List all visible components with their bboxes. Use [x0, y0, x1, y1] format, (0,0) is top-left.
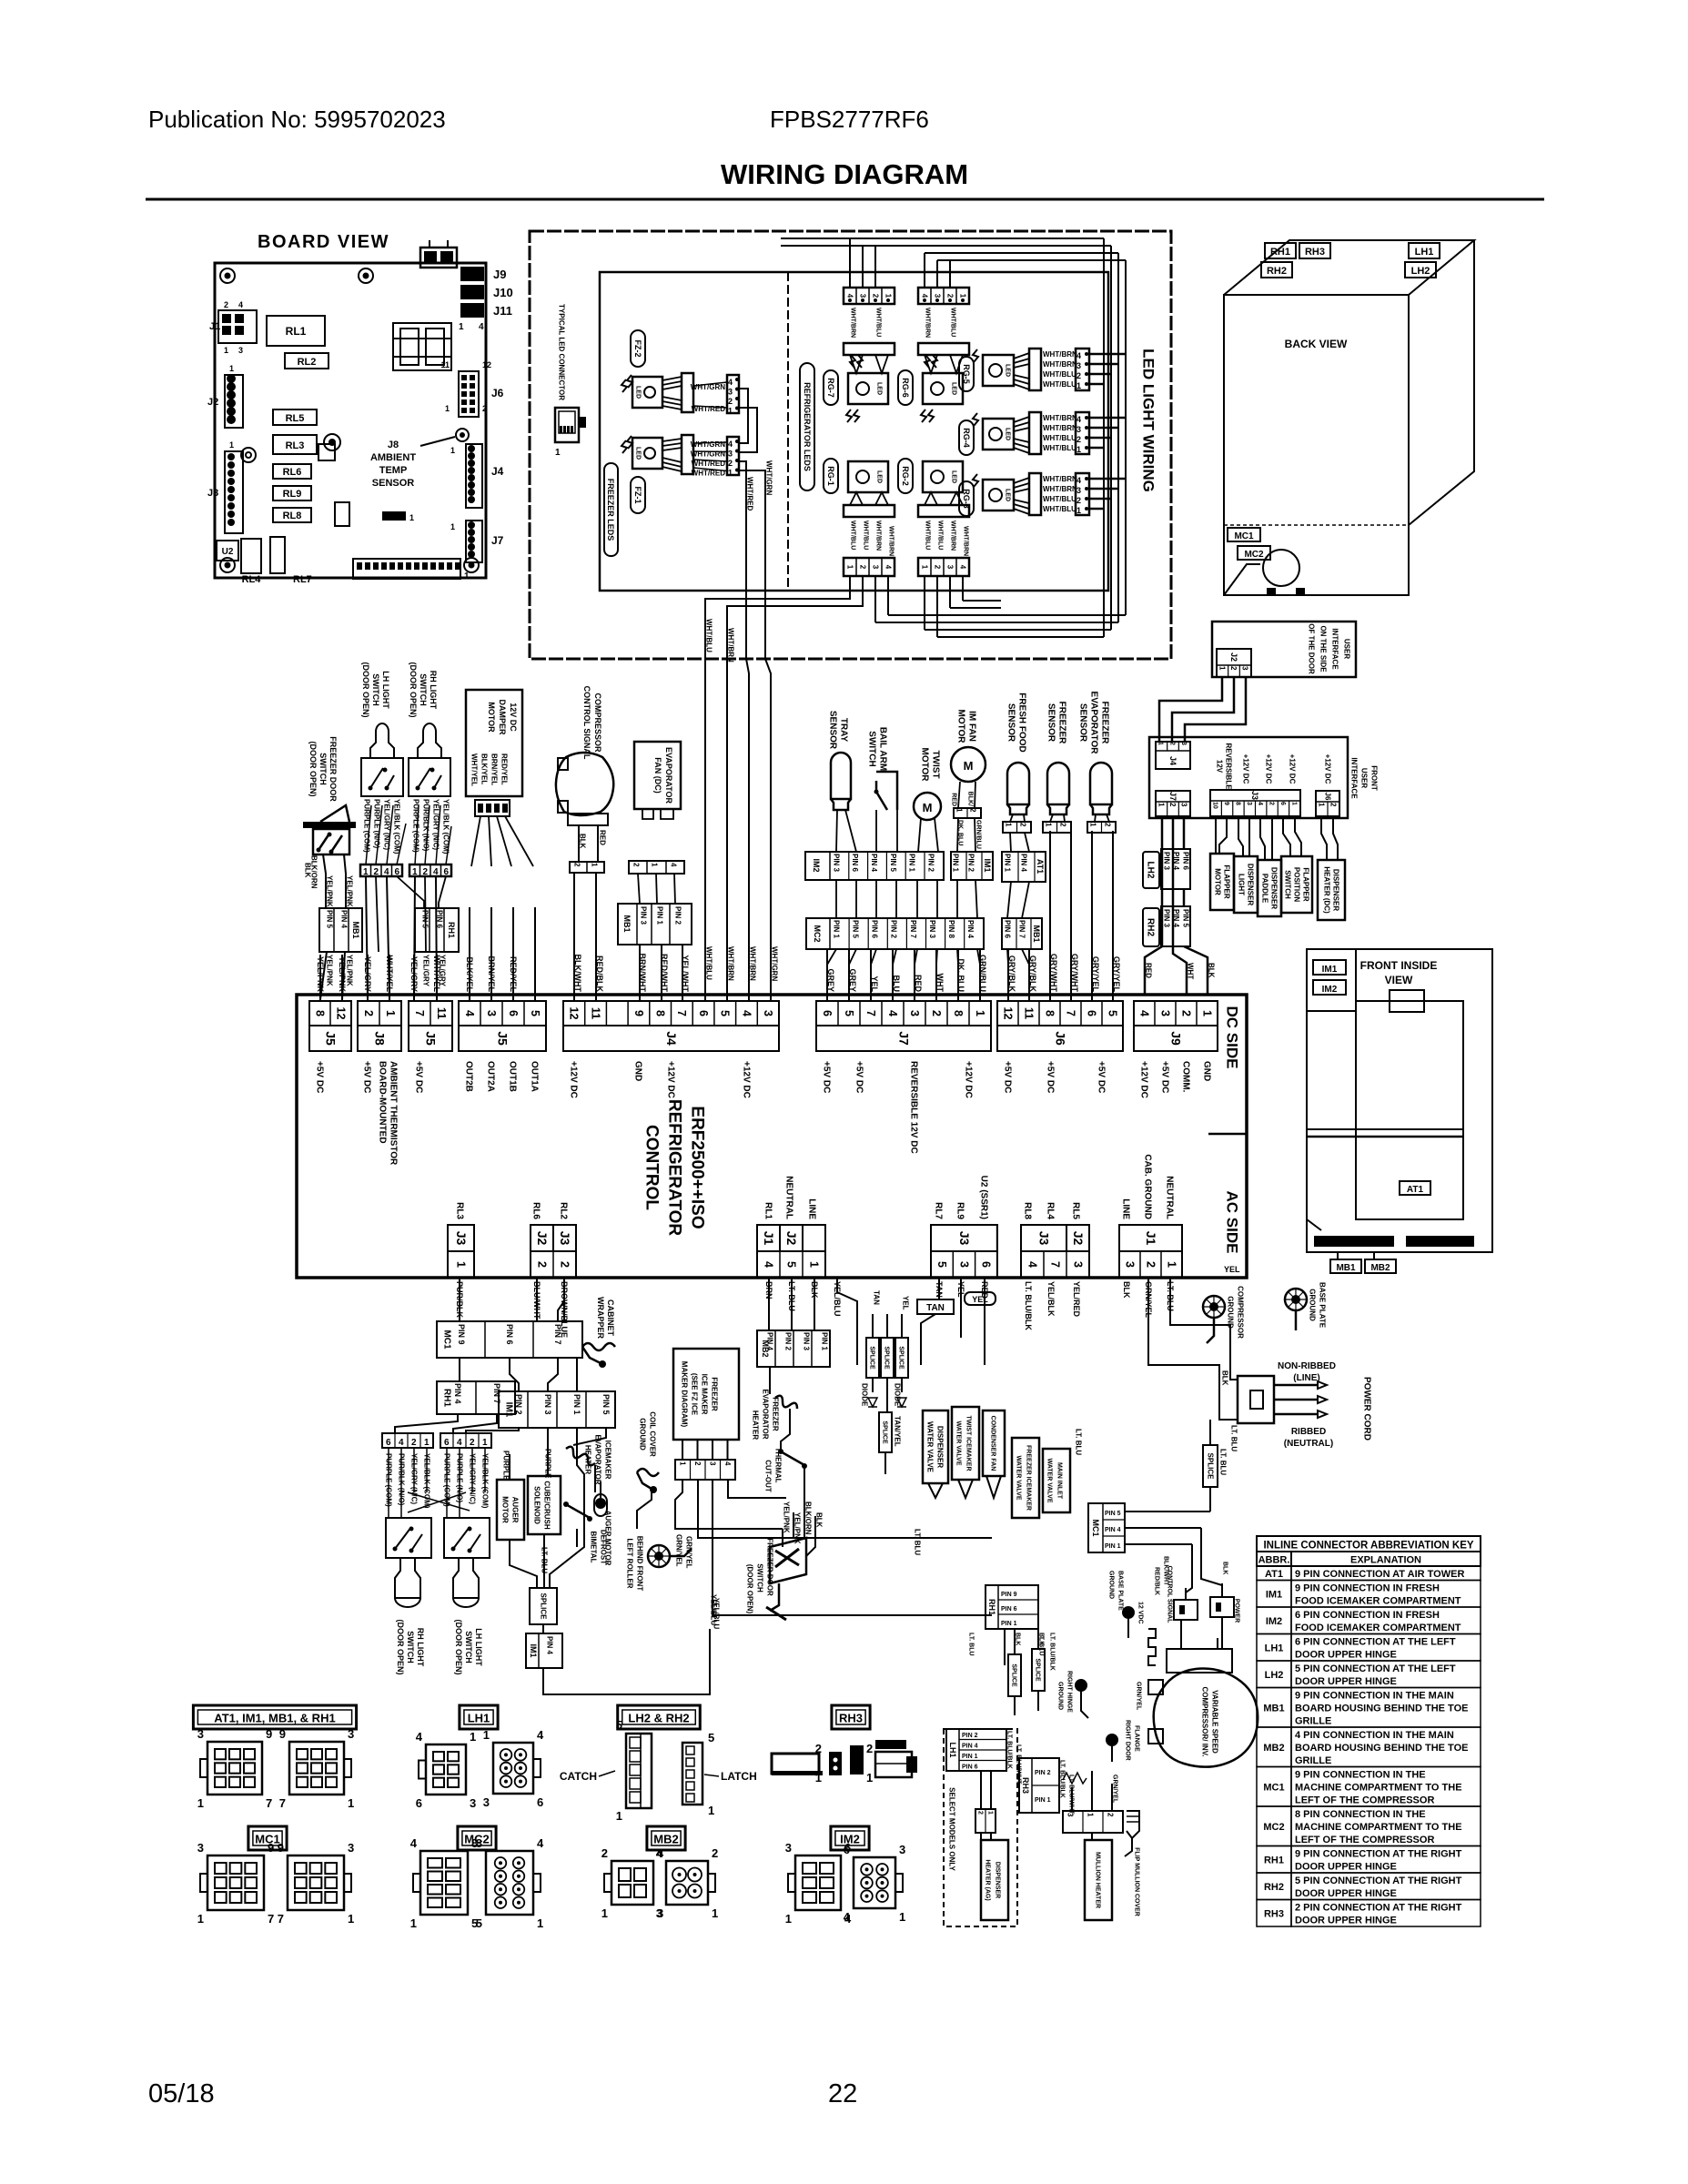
- door bins: [1314, 1236, 1394, 1247]
- svg-text:2: 2: [632, 863, 640, 867]
- svg-text:8: 8: [654, 1010, 667, 1016]
- svg-text:4: 4: [399, 1438, 404, 1448]
- svg-text:1: 1: [1290, 802, 1297, 805]
- svg-text:+12V DC: +12V DC: [1288, 754, 1296, 784]
- im fan motor: [951, 747, 986, 782]
- connector J9: [460, 267, 484, 281]
- svg-text:FRONT INSIDE: FRONT INSIDE: [1360, 959, 1438, 972]
- svg-text:ICEMAKER: ICEMAKER: [603, 1441, 612, 1480]
- svg-text:1: 1: [866, 1771, 873, 1785]
- svg-text:3: 3: [197, 1841, 204, 1855]
- svg-text:WHT/BRN: WHT/BRN: [1043, 360, 1077, 369]
- svg-text:IM1: IM1: [529, 1643, 538, 1657]
- svg-text:RG-2: RG-2: [901, 466, 910, 486]
- svg-text:+12V DC: +12V DC: [964, 1061, 974, 1098]
- svg-text:1: 1: [728, 407, 733, 416]
- svg-text:PIN 4: PIN 4: [545, 1636, 553, 1655]
- FZ-1 pill: [631, 477, 645, 513]
- svg-text:WHT/BRN: WHT/BRN: [925, 308, 931, 338]
- compressor feet: [1267, 588, 1276, 595]
- svg-text:2: 2: [535, 1261, 548, 1268]
- wires to power plug: [1170, 1278, 1238, 1380]
- label AT1 IM1 MB1 RH1: [193, 1705, 356, 1729]
- front UI J3 connector: [1210, 790, 1300, 816]
- FZ-1 wedge: [682, 435, 693, 474]
- svg-text:TWIST: TWIST: [931, 750, 941, 778]
- svg-text:WHT/BRN: WHT/BRN: [1043, 424, 1077, 432]
- svg-text:RH1: RH1: [1264, 1855, 1284, 1865]
- svg-text:PIN 1: PIN 1: [1105, 1543, 1121, 1550]
- relay RL7: [270, 537, 285, 573]
- relay RL4: [241, 539, 261, 573]
- wires icemaker heater: [573, 1428, 606, 1445]
- svg-text:WHT/BRN: WHT/BRN: [1043, 485, 1077, 493]
- svg-text:REFRIGERATOR: REFRIGERATOR: [665, 1099, 684, 1237]
- RG-7 wedge: [844, 343, 895, 355]
- svg-text:CATCH: CATCH: [560, 1770, 597, 1783]
- svg-text:RL6: RL6: [283, 467, 302, 478]
- svg-text:GRN/YEL: GRN/YEL: [674, 1534, 682, 1567]
- diode symbols: [868, 1398, 877, 1407]
- svg-text:PIN 5: PIN 5: [889, 854, 897, 873]
- RG-5 pin box: [1076, 349, 1089, 390]
- wires evap fan to MB1: [638, 874, 640, 904]
- yel pill label: [965, 1292, 996, 1305]
- svg-text:J6: J6: [491, 387, 504, 399]
- svg-text:PIN 3: PIN 3: [1162, 852, 1170, 871]
- splice right: [1203, 1445, 1218, 1487]
- svg-text:2: 2: [572, 863, 581, 867]
- svg-text:POSITION: POSITION: [1292, 867, 1300, 902]
- svg-text:PIN 4: PIN 4: [765, 1332, 773, 1351]
- svg-text:SENSOR: SENSOR: [1046, 703, 1056, 743]
- svg-text:GRILLE: GRILLE: [1295, 1755, 1331, 1766]
- svg-text:1: 1: [807, 1261, 820, 1268]
- ic U2: [217, 541, 238, 561]
- compressor signal connector: [556, 753, 613, 815]
- svg-text:M: M: [964, 759, 974, 773]
- svg-text:LH1: LH1: [468, 1712, 490, 1725]
- svg-text:1: 1: [410, 1916, 417, 1930]
- svg-text:PIN 4: PIN 4: [453, 1383, 462, 1404]
- svg-text:6: 6: [821, 1010, 834, 1016]
- RH1 pin box lower: [437, 1381, 515, 1414]
- svg-text:SENSOR: SENSOR: [828, 711, 838, 750]
- svg-text:4: 4: [479, 322, 484, 332]
- wires into MC1 right: [1125, 1511, 1210, 1512]
- door shelf lines: [1308, 1128, 1463, 1130]
- svg-text:6: 6: [697, 1010, 710, 1016]
- svg-text:FRESH FOOD: FRESH FOOD: [1017, 693, 1027, 753]
- svg-text:3: 3: [656, 1906, 662, 1920]
- svg-text:FZ-2: FZ-2: [633, 340, 642, 358]
- svg-text:PIN 5: PIN 5: [851, 920, 859, 939]
- RG-5 pill: [959, 357, 974, 391]
- RH light switch upper: [418, 732, 441, 758]
- wires J3 to MC1: [459, 1278, 460, 1321]
- svg-text:J8: J8: [372, 1031, 387, 1046]
- connector J7 label: [816, 1026, 991, 1051]
- svg-text:3: 3: [871, 565, 879, 570]
- svg-text:3: 3: [945, 565, 954, 570]
- svg-text:TYPICAL LED CONNECTOR: TYPICAL LED CONNECTOR: [557, 304, 565, 400]
- svg-text:WHT/BLU: WHT/BLU: [937, 521, 944, 550]
- splice tan/yel: [879, 1412, 892, 1452]
- RG-4 pin box: [1076, 412, 1089, 454]
- svg-text:J2: J2: [784, 1231, 799, 1246]
- svg-text:INTERFACE: INTERFACE: [1349, 757, 1358, 799]
- svg-text:1: 1: [470, 1730, 476, 1744]
- svg-text:2: 2: [866, 1742, 873, 1755]
- svg-text:1: 1: [459, 322, 464, 332]
- svg-text:1: 1: [1076, 445, 1081, 454]
- svg-text:2: 2: [224, 300, 228, 309]
- svg-text:PIN 4: PIN 4: [339, 910, 348, 929]
- sensor pad J8: [456, 429, 469, 441]
- svg-text:MB2: MB2: [1263, 1743, 1284, 1754]
- cube crush solenoid box: [528, 1476, 561, 1534]
- svg-text:PIN 2: PIN 2: [673, 906, 682, 925]
- svg-text:J5: J5: [495, 1031, 510, 1046]
- svg-text:J4: J4: [1168, 756, 1178, 765]
- svg-text:2: 2: [362, 1010, 375, 1016]
- svg-text:6: 6: [1279, 802, 1286, 805]
- svg-text:7: 7: [279, 1796, 286, 1810]
- svg-text:5: 5: [719, 1010, 732, 1016]
- svg-text:RH3: RH3: [839, 1712, 863, 1725]
- svg-text:PIN 7: PIN 7: [1017, 920, 1026, 939]
- svg-text:RG-1: RG-1: [826, 466, 835, 486]
- svg-text:PIN 6: PIN 6: [435, 910, 443, 929]
- svg-text:12: 12: [568, 1007, 581, 1020]
- svg-text:LT. BLU/BLK: LT. BLU/BLK: [1059, 1760, 1066, 1798]
- wires J1 to MB2: [768, 1278, 770, 1330]
- LH1 pin box bottom: [946, 1729, 1006, 1771]
- svg-text:1: 1: [712, 1906, 718, 1920]
- svg-text:1: 1: [1218, 666, 1226, 671]
- RG-7 led box: [848, 373, 888, 404]
- select models only dashed box: [944, 1729, 1017, 1926]
- mullion heater pins: [1063, 1811, 1123, 1833]
- svg-text:PIN 6: PIN 6: [962, 1764, 978, 1771]
- svg-text:MB1: MB1: [1336, 1263, 1356, 1273]
- dispenser light box: [1234, 856, 1258, 913]
- connector J6 pins: [997, 1001, 1123, 1026]
- svg-text:PIN 1: PIN 1: [1003, 854, 1011, 873]
- wires mullion: [1071, 1787, 1073, 1811]
- svg-text:REVERSIBLE 12V DC: REVERSIBLE 12V DC: [909, 1061, 919, 1154]
- svg-text:2: 2: [977, 1811, 984, 1815]
- svg-text:J2: J2: [207, 397, 218, 408]
- svg-text:1: 1: [958, 294, 966, 298]
- svg-text:MB1: MB1: [1032, 925, 1041, 942]
- svg-text:RL6: RL6: [531, 1202, 541, 1219]
- svg-text:WHT/BLU: WHT/BLU: [875, 308, 882, 337]
- svg-text:TAN: TAN: [872, 1290, 880, 1305]
- svg-text:RG-7: RG-7: [826, 378, 835, 398]
- freezer door switch lower: [770, 1538, 806, 1583]
- wires to splice: [510, 1540, 537, 1588]
- svg-text:J8: J8: [388, 440, 399, 450]
- front inside view box: [1307, 949, 1492, 1252]
- compressor ground symbol: [1203, 1296, 1225, 1318]
- svg-text:4: 4: [238, 300, 243, 309]
- svg-text:5: 5: [708, 1731, 714, 1744]
- svg-text:MOTOR: MOTOR: [920, 747, 930, 782]
- svg-text:YEL/PNK: YEL/PNK: [325, 875, 333, 907]
- svg-text:1: 1: [1200, 1010, 1213, 1016]
- connector drawing AT1 right: [289, 1742, 344, 1795]
- connector drawing LH1 right: [493, 1743, 533, 1794]
- svg-text:2: 2: [1229, 666, 1238, 671]
- RG-4 wedge: [1029, 412, 1041, 454]
- svg-text:(DOOR OPEN): (DOOR OPEN): [396, 1619, 405, 1674]
- svg-text:J3: J3: [454, 1231, 469, 1246]
- svg-text:PIN 2: PIN 2: [514, 1394, 523, 1415]
- svg-text:3: 3: [908, 1010, 921, 1016]
- svg-text:OUT2B: OUT2B: [464, 1061, 474, 1092]
- svg-text:3: 3: [1180, 803, 1188, 807]
- table row RH1: [1257, 1846, 1291, 1874]
- svg-text:1: 1: [363, 867, 369, 877]
- twist motor: [914, 793, 941, 820]
- svg-text:MOTOR: MOTOR: [956, 709, 966, 743]
- svg-text:DOOR UPPER HINGE: DOOR UPPER HINGE: [1295, 1862, 1397, 1873]
- bail arm wires: [875, 810, 877, 852]
- svg-text:J6: J6: [1323, 793, 1331, 801]
- svg-text:PIN 5: PIN 5: [601, 1394, 611, 1415]
- svg-text:AC SIDE: AC SIDE: [1223, 1191, 1240, 1254]
- board pad 2: [241, 448, 256, 462]
- svg-text:LEFT ROLLER: LEFT ROLLER: [625, 1538, 633, 1588]
- svg-text:HEATER: HEATER: [751, 1410, 759, 1441]
- svg-text:3: 3: [1241, 666, 1249, 671]
- FZ-2 pin box: [727, 375, 739, 413]
- svg-text:RH LIGHT: RH LIGHT: [416, 1628, 425, 1667]
- svg-text:2: 2: [712, 1846, 718, 1860]
- svg-text:IM1: IM1: [504, 1402, 514, 1418]
- svg-text:2: 2: [1179, 1010, 1192, 1016]
- svg-text:BIMETAL: BIMETAL: [589, 1532, 597, 1563]
- connector J5 board: [353, 559, 460, 579]
- rg right col connections: [1089, 353, 1126, 356]
- svg-text:2: 2: [1269, 802, 1275, 805]
- svg-text:YEL/PNK: YEL/PNK: [345, 875, 353, 907]
- control internal divider: [1208, 1133, 1247, 1136]
- svg-text:4: 4: [433, 867, 439, 877]
- wires freezer door switch: [323, 854, 326, 908]
- svg-text:RL7: RL7: [934, 1202, 944, 1219]
- svg-text:BOARD VIEW: BOARD VIEW: [258, 232, 389, 252]
- svg-text:GRILLE: GRILLE: [1295, 1716, 1331, 1727]
- svg-text:2: 2: [470, 1438, 475, 1448]
- svg-text:3: 3: [348, 1727, 354, 1741]
- svg-text:BOARD HOUSING BEHIND THE TOE: BOARD HOUSING BEHIND THE TOE: [1295, 1704, 1468, 1714]
- svg-text:4: 4: [537, 1728, 544, 1742]
- svg-text:6: 6: [537, 1795, 543, 1809]
- svg-text:J2: J2: [1229, 652, 1238, 662]
- power cord plug: [1238, 1376, 1274, 1423]
- svg-text:4: 4: [1257, 802, 1263, 805]
- svg-text:FOOD ICEMAKER COMPARTMENT: FOOD ICEMAKER COMPARTMENT: [1295, 1623, 1461, 1633]
- svg-text:4: 4: [728, 440, 733, 449]
- svg-text:12V DC: 12V DC: [509, 703, 518, 732]
- wires compressor region: [1180, 1620, 1182, 1649]
- svg-text:7: 7: [266, 1796, 272, 1810]
- svg-text:WHT/BRN: WHT/BRN: [1043, 475, 1077, 483]
- svg-text:1: 1: [601, 1906, 608, 1920]
- svg-text:SPLICE: SPLICE: [1035, 1658, 1041, 1682]
- svg-text:DOOR UPPER HINGE: DOOR UPPER HINGE: [1295, 1676, 1397, 1687]
- wires freezer door switch lower: [782, 1529, 783, 1547]
- LED light wiring outer box: [530, 231, 1171, 659]
- freezer door switch symbol: [303, 822, 356, 828]
- svg-text:9: 9: [632, 1010, 645, 1016]
- svg-text:PIN 1: PIN 1: [1001, 1621, 1017, 1627]
- svg-text:FAN (DC): FAN (DC): [653, 757, 662, 794]
- svg-text:2: 2: [1076, 435, 1081, 444]
- svg-text:6: 6: [507, 1010, 520, 1016]
- svg-text:J1: J1: [209, 321, 220, 332]
- table row MC2: [1257, 1806, 1291, 1846]
- RH2 pill: [1143, 908, 1159, 946]
- svg-text:WHT/BLU: WHT/BLU: [863, 521, 869, 550]
- svg-text:3: 3: [197, 1727, 204, 1741]
- auger motor box: [497, 1480, 524, 1540]
- svg-text:3: 3: [1246, 802, 1252, 805]
- svg-text:9: 9: [279, 1727, 286, 1741]
- svg-text:11: 11: [435, 1007, 448, 1019]
- variable speed compressor blob: [1154, 1669, 1258, 1767]
- control signal connectors: [1174, 1600, 1198, 1620]
- svg-text:PIN 3: PIN 3: [832, 854, 840, 873]
- svg-text:J7: J7: [896, 1031, 911, 1046]
- fridge door outline: [1356, 1001, 1463, 1219]
- svg-text:GROUND: GROUND: [1308, 1289, 1316, 1321]
- svg-text:WHT/GRN: WHT/GRN: [770, 946, 778, 981]
- connector drawing MC1 left: [207, 1855, 264, 1910]
- svg-text:4: 4: [463, 1010, 476, 1016]
- svg-text:8: 8: [1234, 802, 1240, 805]
- table row AT1: [1257, 1566, 1291, 1581]
- LH1 label: [1409, 243, 1440, 258]
- svg-text:J11: J11: [493, 304, 512, 318]
- table row MB1: [1257, 1688, 1291, 1728]
- svg-text:GROUND: GROUND: [1057, 1682, 1064, 1710]
- svg-text:TWIST ICEMAKER: TWIST ICEMAKER: [965, 1415, 972, 1471]
- svg-text:4: 4: [656, 1846, 663, 1860]
- svg-text:8: 8: [1043, 1010, 1056, 1016]
- svg-text:IM1: IM1: [983, 858, 992, 872]
- svg-text:22: 22: [828, 2079, 857, 2108]
- svg-text:DISPENSER: DISPENSER: [1246, 864, 1254, 905]
- svg-text:LH2: LH2: [1411, 266, 1430, 277]
- svg-text:SPLICE: SPLICE: [1206, 1453, 1214, 1481]
- svg-text:FREEZER: FREEZER: [771, 1397, 779, 1431]
- svg-text:VIEW: VIEW: [1385, 974, 1413, 986]
- svg-text:LED: LED: [1005, 489, 1011, 501]
- connector drawing MB2 left: [612, 1861, 653, 1905]
- svg-text:LH LIGHT: LH LIGHT: [474, 1628, 483, 1666]
- connector J5 label: [409, 1026, 452, 1051]
- svg-text:LH2: LH2: [1265, 1670, 1284, 1681]
- svg-text:2: 2: [1168, 803, 1177, 807]
- board pad: [324, 434, 340, 450]
- svg-text:MC1: MC1: [1091, 1519, 1100, 1536]
- svg-text:HEATER (DC): HEATER (DC): [1322, 866, 1330, 914]
- svg-text:YEL/BLU: YEL/BLU: [712, 1598, 720, 1629]
- refrigerator control outer box: [297, 995, 1247, 1278]
- svg-text:NEUTRAL: NEUTRAL: [784, 1176, 794, 1219]
- FZ-2 led module: [632, 377, 662, 408]
- connector J9 pins: [1134, 1001, 1218, 1026]
- MC2 pin box: [806, 918, 984, 949]
- svg-text:+12V DC: +12V DC: [1241, 754, 1249, 784]
- svg-text:PIN 6: PIN 6: [1003, 920, 1011, 939]
- svg-text:J2: J2: [1071, 1231, 1086, 1246]
- svg-text:3: 3: [728, 450, 733, 459]
- svg-text:WATER VALVE: WATER VALVE: [925, 1421, 934, 1473]
- svg-text:VARIABLE SPEED: VARIABLE SPEED: [1210, 1690, 1218, 1754]
- small connector: [382, 511, 406, 521]
- svg-text:(SEE FZ ICE: (SEE FZ ICE: [690, 1373, 698, 1416]
- twist motor wires: [918, 818, 921, 852]
- RH1 label: [1265, 243, 1296, 258]
- svg-text:3: 3: [1076, 425, 1081, 434]
- svg-text:SWITCH: SWITCH: [1283, 870, 1291, 899]
- svg-text:FRONT: FRONT: [1370, 765, 1378, 791]
- RH2 pin box: [1161, 906, 1190, 946]
- svg-text:6: 6: [416, 1796, 422, 1810]
- refrigerator leds pill label: [800, 363, 814, 490]
- connector J8 pins: [358, 1001, 401, 1026]
- svg-text:AMBIENT THERMISTOR: AMBIENT THERMISTOR: [389, 1061, 399, 1166]
- svg-text:12V: 12V: [1215, 760, 1223, 773]
- svg-text:1: 1: [1086, 1813, 1094, 1817]
- svg-text:FPBS2777RF6: FPBS2777RF6: [770, 106, 929, 133]
- svg-text:1: 1: [483, 1728, 490, 1742]
- svg-text:J3: J3: [558, 1231, 572, 1246]
- compressor signal base: [568, 814, 608, 825]
- compressor signal pins: [570, 862, 604, 873]
- svg-text:WHT/BLU: WHT/BLU: [704, 619, 713, 652]
- svg-text:8 PIN CONNECTION IN THE: 8 PIN CONNECTION IN THE: [1295, 1809, 1426, 1820]
- svg-text:SPLICE: SPLICE: [869, 1346, 875, 1370]
- svg-text:PIN 5: PIN 5: [1181, 909, 1189, 928]
- AT1 pin box right: [1002, 852, 1046, 882]
- svg-text:RL2: RL2: [298, 357, 317, 368]
- svg-text:PIN 1: PIN 1: [655, 906, 663, 925]
- RG-6 pin header: [918, 288, 969, 304]
- freezer ice maker box: [673, 1349, 739, 1440]
- svg-text:1: 1: [224, 346, 228, 355]
- svg-text:WHT/BRN: WHT/BRN: [1043, 350, 1077, 359]
- svg-text:4: 4: [844, 1910, 851, 1924]
- svg-text:GRN/YEL: GRN/YEL: [1136, 1682, 1142, 1711]
- svg-text:WHT/BLU: WHT/BLU: [1043, 444, 1076, 452]
- svg-text:7: 7: [675, 1010, 688, 1016]
- svg-text:DC SIDE: DC SIDE: [1223, 1006, 1240, 1069]
- svg-text:PIN 8: PIN 8: [947, 920, 955, 939]
- MB1 label below view: [1330, 1259, 1361, 1273]
- svg-text:1: 1: [424, 1438, 430, 1448]
- svg-text:2: 2: [558, 1261, 571, 1268]
- svg-text:MC2: MC2: [1263, 1822, 1284, 1833]
- svg-text:PIN 6: PIN 6: [1001, 1606, 1017, 1613]
- label IM2: [831, 1826, 869, 1850]
- wires to splices: [872, 1314, 874, 1338]
- im fan pin header: [954, 808, 981, 818]
